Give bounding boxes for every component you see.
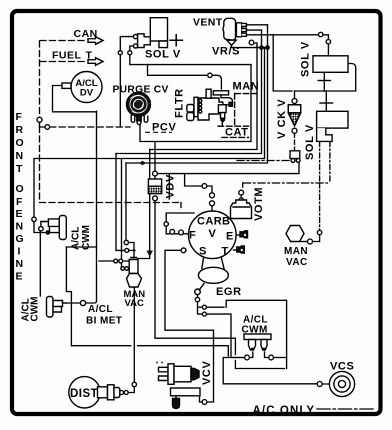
node VCS wire — [317, 382, 322, 387]
node VDV bottom — [153, 196, 158, 201]
diverter port circles — [199, 99, 202, 102]
svg-text:O: O — [16, 183, 24, 195]
wire long y346 from BI MET to CWM leg — [71, 295, 228, 356]
A/CL CWM upper flange — [59, 216, 66, 240]
dash-dot wire west from box — [237, 160, 291, 162]
actuator A/CL CWM lower: flange — [47, 297, 54, 318]
actuator A/CL CWM upper: tubes — [48, 219, 59, 233]
svg-text:PCV: PCV — [152, 122, 176, 134]
SOL V nipple circles — [133, 35, 137, 39]
wire VDV chain down to leg bus — [155, 199, 285, 369]
node votm lower — [239, 198, 244, 203]
A/CL CWM nozzle circle — [39, 227, 43, 231]
node VCK top — [292, 99, 297, 104]
solenoid SOL V lower-right — [317, 111, 348, 128]
stub to purge dashed line — [40, 122, 46, 127]
dots above VCV — [156, 362, 158, 364]
svg-text:SOL V: SOL V — [145, 49, 181, 61]
wire node to VDV — [154, 176, 156, 179]
svg-text:T: T — [86, 49, 93, 61]
node on lower sol v wire — [128, 51, 132, 55]
A/C ONLY dashed — [317, 408, 376, 410]
junction dot — [266, 46, 269, 49]
valve A/CL DV circle — [71, 72, 102, 103]
dashed air-cleaner boundary horizontal — [40, 202, 182, 204]
junction box — [290, 151, 300, 159]
wire lower sol v feed — [325, 91, 327, 111]
node EGR chain — [195, 297, 199, 301]
wire SOL V upper nipple west then south — [120, 37, 133, 127]
svg-text:A/CL: A/CL — [71, 227, 82, 250]
motor VOTM — [231, 200, 252, 219]
wire carb T stub — [234, 249, 237, 251]
wire BI MET riser top — [66, 247, 71, 295]
nub carb E dark — [240, 231, 248, 238]
diverter center block — [218, 105, 226, 113]
valve VDV body — [148, 179, 161, 186]
svg-text:E: E — [226, 231, 233, 243]
valve VENT/VR-S body — [223, 18, 236, 40]
wire VR/S low nipple to SOL V right — [247, 35, 329, 56]
node box left port — [291, 159, 295, 163]
MAN VAC center hexagon — [127, 274, 142, 288]
svg-text:E: E — [16, 208, 23, 220]
nodes stem y261 — [114, 259, 118, 263]
node at hexagon nipple — [308, 239, 313, 244]
wire EGR loop to right leg — [226, 300, 286, 368]
diverter down pipe — [221, 113, 225, 119]
svg-text:PURGE CV: PURGE CV — [113, 85, 169, 96]
wire right leg nub — [265, 352, 269, 358]
wire VDV chain from bundle — [154, 142, 156, 172]
wire drop x126 to stem top — [125, 163, 127, 240]
svg-text:FLTR: FLTR — [174, 88, 186, 118]
VCV body — [174, 366, 191, 382]
stub from y174 line down — [168, 175, 170, 199]
wire VR/S mid nipple east — [247, 29, 262, 31]
wire carb S west to VCV — [165, 250, 214, 402]
svg-text:VOTM: VOTM — [253, 187, 265, 221]
svg-text:A/C ONLY: A/C ONLY — [253, 405, 316, 417]
distributor DIST circle — [69, 377, 100, 408]
node right leg — [269, 355, 274, 360]
plus mark lower — [320, 102, 333, 104]
node votm upper — [239, 190, 244, 195]
wire left leg nub — [249, 352, 252, 358]
svg-text:VDV: VDV — [165, 174, 177, 198]
svg-text:T: T — [16, 163, 23, 175]
dashed under PCV — [145, 131, 172, 133]
node A/CL CWM stub — [32, 217, 36, 221]
VR/S funnel — [227, 40, 236, 45]
dashed verticals from lower SOL V — [319, 142, 321, 183]
wire purge cv to bundle y141.5 — [140, 65, 251, 142]
diverter right J-pipe — [221, 96, 232, 105]
wire long bus y158.5 west to A/CL CWM — [34, 159, 265, 233]
man vac hex nipple — [300, 241, 308, 243]
node on MAN feed — [208, 73, 212, 77]
wire arrow drop to stem — [138, 150, 150, 259]
wire A/CL DV drop to MAN VAC feed — [86, 111, 97, 303]
node F wire a — [170, 229, 175, 234]
svg-text:E: E — [16, 271, 23, 283]
node DIST riser — [132, 382, 136, 386]
dashed CAT overline — [218, 125, 249, 127]
wire into carb top — [211, 206, 213, 211]
svg-text:VENT: VENT — [193, 17, 223, 29]
svg-text:T: T — [222, 246, 229, 258]
nub carb T dark — [237, 246, 245, 253]
wire A/CL DV to left — [53, 86, 97, 112]
node stem upper wire — [125, 248, 129, 252]
J-pipe nub dark — [229, 102, 232, 106]
filter FLTR stack — [187, 105, 194, 113]
nodes on stem lower wire — [121, 267, 125, 271]
component A/CL CWM bottom-right body — [244, 334, 271, 350]
diverter top pipe — [206, 89, 211, 98]
node left leg — [245, 355, 250, 360]
svg-text:DV: DV — [80, 88, 94, 99]
dashed VCK to junction box — [294, 133, 296, 150]
dashed horizontal y183 — [244, 182, 331, 184]
junction dot — [260, 46, 263, 49]
wire leg bus west and down to VCS line — [223, 358, 317, 384]
wire VCS link — [322, 383, 338, 385]
wire SOL V lower nipple to long east line y62 — [130, 46, 265, 159]
EGR ellipse — [198, 267, 228, 283]
purge legs — [131, 116, 135, 123]
svg-text:BI MET: BI MET — [86, 316, 122, 327]
svg-text:EGR: EGR — [216, 286, 242, 298]
wire MAN feed y75.3 — [148, 65, 222, 89]
flow arrow on stem feed — [147, 251, 153, 258]
node F wire b — [179, 230, 184, 235]
dashed votm riser — [242, 183, 244, 190]
node VCK bottom — [292, 128, 297, 133]
check valve V CK V cup — [288, 105, 300, 126]
VCV plug bar — [168, 364, 174, 385]
A/CL CWM upper nozzle wire — [41, 222, 49, 227]
V CK V checker — [289, 113, 301, 126]
VCV bracket stub left — [175, 396, 177, 398]
wire CAN dashed — [40, 40, 87, 42]
lower SOL V bracket — [317, 128, 333, 141]
node carb V lower — [210, 201, 215, 206]
svg-text:F: F — [16, 196, 23, 208]
wire VCK top — [294, 91, 296, 99]
dashed CAT underline — [222, 136, 249, 138]
purge middle port circle — [137, 121, 141, 125]
solenoid VCS rings — [329, 371, 354, 396]
node on y34.5 — [319, 32, 323, 36]
wire VR/S top nipple east — [247, 24, 268, 26]
wire CWM2 top feed — [39, 231, 41, 296]
svg-text:DIST: DIST — [70, 388, 98, 400]
VR/S flange — [236, 23, 241, 37]
svg-text:A/CL: A/CL — [88, 304, 113, 315]
dashed air-cleaner boundary vertical — [39, 41, 41, 202]
svg-text:V: V — [209, 228, 217, 240]
carburetor CARB circle — [189, 211, 237, 259]
dashed MAN underline — [235, 93, 256, 95]
hexagon MAN VAC right — [286, 226, 304, 242]
wire drop x116 to stem — [116, 154, 135, 251]
solenoid SOL V upper-right — [313, 56, 348, 73]
carb base trapezoid — [202, 258, 224, 269]
svg-text:R: R — [16, 124, 24, 136]
wire votm stub — [240, 195, 242, 198]
valve PURGE CV body — [127, 92, 151, 116]
svg-text:VAC: VAC — [286, 257, 308, 268]
valve VCV plug prongs — [159, 367, 169, 380]
wire bundle y163 — [126, 25, 268, 163]
A/CL DV port — [62, 83, 71, 88]
node carb V wire — [202, 184, 207, 189]
node on dashed purge line — [45, 125, 50, 130]
svg-text:SOL V: SOL V — [304, 124, 316, 160]
node egr line2 — [202, 312, 206, 316]
wire T-drop to MAN VAC stem lower — [122, 159, 130, 269]
svg-text:VCS: VCS — [330, 361, 354, 373]
solenoid SOL V coil — [138, 34, 151, 48]
node on x328 drop — [326, 40, 330, 44]
wire VENT funnel bottom — [232, 45, 268, 48]
MAN bar — [213, 91, 228, 95]
node stem top feed — [124, 240, 128, 244]
wire MAN VAC stem left y261 — [99, 260, 129, 262]
junction dot CWM — [46, 231, 49, 234]
wire node to hexagon — [313, 235, 320, 242]
wire DIST riser — [133, 288, 135, 383]
stub to CAT — [221, 122, 223, 126]
DIST snout stack — [98, 387, 108, 398]
wire carb F west — [166, 213, 194, 234]
plus mark SOL V — [170, 35, 182, 46]
fitting MAN VAC center stem — [129, 258, 138, 274]
dashed vertical to man vac hexagon — [319, 183, 321, 230]
wire EGR line2 — [198, 307, 245, 357]
dashed box vertical MAN-CAT — [234, 94, 236, 126]
wire node to carb V elbow — [207, 186, 212, 193]
svg-text:G: G — [16, 233, 24, 245]
wire VCK cup feed — [294, 104, 296, 106]
svg-text:CAT: CAT — [225, 127, 249, 139]
node egr line1 — [202, 305, 206, 309]
wire riser to DIST snout — [129, 387, 135, 393]
wire port to riser — [254, 43, 257, 46]
svg-text:VAC: VAC — [125, 298, 144, 309]
wire node to stem top — [129, 243, 135, 258]
svg-text:MAN: MAN — [284, 246, 308, 257]
node box right port — [296, 159, 300, 163]
wire VCK feed from y34.5 — [273, 35, 292, 92]
EGR port circle — [195, 289, 201, 295]
svg-text:VR/S: VR/S — [212, 46, 240, 58]
svg-text:N: N — [16, 221, 24, 233]
node on F riser — [164, 222, 168, 226]
wire right leg to riser — [274, 357, 287, 359]
node VR/S bottom port — [249, 40, 254, 45]
svg-text:CWM: CWM — [30, 297, 41, 322]
VR/S nipples — [242, 23, 247, 36]
node above man vac link — [317, 230, 321, 234]
wire CWM1 y247 link — [66, 246, 96, 248]
svg-text:F: F — [189, 230, 196, 242]
wire SOL V loop right side — [295, 64, 356, 92]
svg-text:N: N — [16, 258, 24, 270]
svg-text:S: S — [199, 246, 206, 258]
nodes DIST snout — [120, 391, 124, 395]
wire carb V drop from y173.6 — [185, 174, 202, 186]
svg-text:N: N — [16, 150, 24, 162]
flow diamond on y163 — [139, 161, 146, 165]
svg-text:V CK V: V CK V — [276, 99, 288, 139]
dashed line at purge legs — [50, 126, 130, 128]
wire carb E stub — [237, 234, 240, 236]
svg-text:F: F — [16, 111, 23, 123]
node VDV top — [153, 171, 158, 176]
wire EGR port chain — [197, 294, 199, 297]
node carb V upper — [210, 193, 215, 198]
A/CL CWM lower tubes — [53, 301, 63, 313]
arrow CAN — [88, 37, 103, 45]
svg-text:SOL V: SOL V — [300, 41, 312, 77]
node on air cleaner dashed vertical — [37, 117, 42, 122]
svg-text:VCV: VCV — [201, 361, 213, 385]
VCV teardrop dark — [173, 399, 180, 409]
VDV checker — [148, 186, 161, 193]
node S port — [181, 248, 186, 253]
node BI MET wire — [80, 300, 85, 305]
wire BI MET nub to node — [66, 302, 80, 304]
A/CL CWM lower nub — [63, 302, 67, 304]
diverter valve body — [198, 98, 223, 120]
VCV lower bracket — [171, 388, 201, 396]
plus mark upper — [318, 80, 330, 82]
wire bundle y149.5 — [150, 46, 257, 150]
svg-text:O: O — [16, 137, 24, 149]
svg-text:FUEL: FUEL — [52, 49, 82, 61]
svg-text:MAN: MAN — [233, 81, 260, 93]
wire sol v plus drop — [323, 74, 325, 92]
wire EGR down — [198, 302, 225, 307]
node on sol v west drop — [118, 51, 122, 55]
VCV dark cone — [191, 368, 199, 380]
wire bundle y153.5 — [116, 30, 262, 153]
wire FUEL T dashed — [40, 61, 87, 63]
svg-text:CARB: CARB — [197, 216, 230, 228]
arrow FUEL T — [88, 58, 103, 66]
svg-text:CAN: CAN — [74, 28, 98, 40]
purge middle leg dark — [137, 115, 141, 124]
wire long y173.6 line to junction box — [158, 161, 300, 174]
node VCV port — [202, 400, 207, 405]
wire VCV nub — [200, 396, 203, 402]
svg-text:CWM: CWM — [81, 225, 92, 250]
svg-text:I: I — [18, 246, 21, 258]
FLTR flange — [194, 97, 198, 116]
down pipe dark tip — [221, 118, 224, 122]
solenoid SOL V top-left body — [150, 18, 167, 41]
